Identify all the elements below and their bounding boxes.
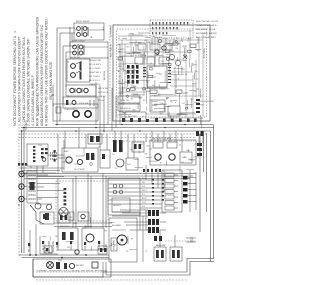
latch motor box: [150, 137, 196, 165]
control board inner dashed box: [117, 29, 207, 117]
relay bank labels: [118, 66, 122, 83]
left chassis dashed vertical: [18, 127, 20, 258]
lock motor circle: [116, 159, 124, 167]
svg-text:HTR: HTR: [184, 57, 189, 59]
ground lug second: [46, 204, 51, 209]
svg-text:C4: C4: [182, 103, 184, 105]
aux box: [126, 158, 138, 170]
dashed line above fans: [165, 240, 196, 242]
door switch box: [67, 57, 102, 86]
dark connector pins strip: [183, 176, 188, 204]
notes text block (rotated schematic notes): [13, 16, 53, 126]
svg-text:REL: REL: [69, 217, 73, 219]
svg-text:1. ALL COMPONENTS SHOWN IN OFF: 1. ALL COMPONENTS SHOWN IN OFF POSITION …: [18, 36, 22, 126]
bottom wire tag labels: [28, 242, 108, 252]
svg-text:Q4: Q4: [130, 56, 133, 58]
svg-text:HI-LIMIT: HI-LIMIT: [76, 265, 85, 267]
bus dashed companions: [19, 133, 207, 135]
svg-text:LATCH SW: LATCH SW: [98, 87, 108, 90]
board row of relays second: [135, 55, 169, 64]
svg-text:90C MIN 600V AWG SIZE: 90C MIN 600V AWG SIZE: [49, 61, 53, 100]
vertical drops to bottom box: [30, 224, 36, 255]
wire bundle from left to top clusters: [57, 27, 75, 125]
svg-text:P2: P2: [115, 168, 117, 170]
svg-text:REL: REL: [166, 97, 170, 99]
fuse links cluster: [27, 140, 64, 170]
svg-text:J3: J3: [176, 38, 178, 40]
svg-text:P1: P1: [191, 99, 193, 101]
svg-text:CAVITY: CAVITY: [118, 48, 125, 51]
bottom center box: [109, 218, 137, 262]
dashed chassis line left of board: [109, 25, 111, 121]
terminal strip block: [162, 170, 182, 212]
right nested border wires: [200, 125, 214, 262]
board small components: [118, 39, 196, 93]
latch switch box: [63, 85, 109, 108]
terminal hatch block: [27, 171, 37, 203]
bottom component cluster row: [40, 212, 104, 250]
svg-text:CONTROL DETAIL A: CONTROL DETAIL A: [196, 24, 217, 27]
svg-text:W: W: [137, 94, 139, 96]
svg-text:OSC: OSC: [170, 51, 175, 53]
svg-text:P2: P2: [197, 50, 199, 52]
board mesh wires: [118, 30, 203, 118]
cooling fan cluster: [154, 244, 182, 261]
svg-text:TOD: TOD: [38, 145, 43, 147]
svg-text:R SERVICING THIS UNIT USE COPP: R SERVICING THIS UNIT USE COPPER CONDUCT…: [45, 19, 49, 126]
svg-text:BK W GY 3: BK W GY 3: [89, 80, 100, 82]
element receptacle box: [108, 178, 140, 215]
terminal wires: [25, 174, 49, 199]
svg-text:LATCH MOTOR ASM: LATCH MOTOR ASM: [152, 137, 171, 140]
svg-text:FUSE: FUSE: [144, 88, 150, 90]
svg-text:BROIL 3400W: BROIL 3400W: [76, 21, 89, 23]
latch aux cluster: [132, 142, 144, 152]
terminal block connector marks: [18, 163, 27, 166]
svg-text:200: 200: [190, 237, 194, 243]
terminal block circles: [19, 171, 24, 201]
wire row labels: [142, 178, 147, 208]
svg-text:L1: L1: [145, 251, 147, 253]
svg-text:DOOR SW: DOOR SW: [70, 57, 80, 59]
svg-text:GND: GND: [83, 227, 88, 229]
junction dot: [52, 94, 54, 96]
svg-text:SENSOR IN: SENSOR IN: [120, 108, 131, 110]
broil element cluster: [74, 21, 104, 40]
transistor Q1: [169, 54, 174, 59]
bottom small comps: [47, 262, 98, 269]
svg-text:BAKE 2500W: BAKE 2500W: [72, 40, 85, 43]
scattered board labels: [118, 34, 194, 105]
svg-text:CAM: CAM: [182, 156, 187, 159]
left border corner: [32, 259, 34, 277]
wire: [52, 85, 54, 104]
strip right verticals: [190, 170, 196, 212]
left wire drops: [21, 131, 23, 253]
pin cluster wires: [120, 210, 166, 230]
svg-text:FAN LAMP: FAN LAMP: [156, 244, 167, 247]
bottom inner equipment box: [33, 259, 111, 277]
clock note text: [196, 21, 219, 58]
svg-text:NC GY: NC GY: [98, 100, 105, 102]
svg-text:DOOR SW 2: DOOR SW 2: [89, 64, 102, 66]
svg-text:P6 CONN: P6 CONN: [38, 106, 40, 116]
svg-text:T1: T1: [167, 89, 169, 91]
strip out wires: [188, 178, 196, 202]
nested corner verticals: [103, 262, 106, 275]
svg-text:L1: L1: [150, 63, 152, 65]
svg-text:COM NO BK: COM NO BK: [89, 60, 102, 62]
svg-text:P3: P3: [194, 64, 196, 66]
svg-text:NO COM NC: NO COM NC: [74, 169, 86, 171]
wire bundle descending to bus: [96, 44, 120, 131]
svg-text:P1: P1: [188, 39, 190, 41]
svg-text:N: N: [18, 203, 20, 207]
svg-text:BLOWER: BLOWER: [112, 225, 121, 227]
svg-text:NO COM R: NO COM R: [89, 76, 100, 78]
drop wires into rows from bus: [146, 165, 164, 192]
svg-text:NC COM W: NC COM W: [89, 68, 100, 70]
motor aux box: [68, 212, 74, 220]
svg-text:OR-4: OR-4: [142, 190, 147, 192]
svg-text:C1: C1: [126, 251, 128, 253]
mid cluster components: [54, 134, 111, 172]
svg-text:HARNESS: HARNESS: [52, 241, 55, 253]
clock connector cluster: [150, 20, 193, 38]
svg-text:4. CAUTION LABEL ALL WIRES P: 4. CAUTION LABEL ALL WIRES P: [31, 74, 35, 126]
svg-text:L1: L1: [56, 245, 58, 247]
svg-text:BK-1: BK-1: [142, 178, 146, 180]
harness pin marks: [64, 188, 67, 205]
svg-text:Y 20: Y 20: [84, 245, 87, 251]
bottom dashed row: [36, 271, 108, 273]
dark pin clusters bottom: [148, 210, 162, 241]
lower-left feeder wires: [20, 166, 64, 204]
svg-text:K1: K1: [143, 69, 145, 71]
svg-text:P4: P4: [190, 159, 192, 161]
svg-text:MAIN PWR: MAIN PWR: [48, 241, 51, 253]
svg-text:2. CHECK ALL CONNECTIONS FOR P: 2. CHECK ALL CONNECTIONS FOR PROPER ROUT…: [22, 36, 26, 126]
svg-text:W: W: [129, 80, 131, 82]
svg-text:P3 CONN: P3 CONN: [204, 48, 206, 58]
svg-text:D3: D3: [112, 154, 114, 156]
svg-text:SEE SHEET 2 FOR: SEE SHEET 2 FOR: [196, 29, 216, 31]
svg-text:W-2: W-2: [142, 182, 145, 184]
svg-text:W: W: [103, 249, 105, 251]
ground stepped wire: [30, 205, 44, 224]
dark pin column right: [196, 99, 200, 113]
svg-text:B1: B1: [91, 36, 93, 38]
svg-text:T1: T1: [49, 215, 51, 217]
svg-text:J2: J2: [179, 144, 181, 146]
svg-text:K1: K1: [131, 98, 133, 100]
svg-text:TOD: TOD: [58, 260, 63, 262]
control board outer box: [113, 25, 210, 121]
board micro parts: [126, 40, 191, 109]
svg-text:4.: 4.: [13, 30, 17, 33]
bottom tag ticks: [28, 241, 100, 246]
svg-text:BAKE RLY: BAKE RLY: [60, 225, 70, 228]
svg-text:GY-7: GY-7: [142, 202, 146, 204]
svg-text:MOTOR DR: MOTOR DR: [98, 92, 109, 94]
svg-text:J2: J2: [136, 83, 138, 85]
mid band drop wires: [58, 128, 203, 174]
svg-text:RC1: RC1: [122, 112, 126, 114]
left bottom wires: [19, 255, 109, 258]
svg-text:D3: D3: [155, 49, 157, 51]
svg-text:SCHEMATIC SHOWN WITH DOOR CLOS: SCHEMATIC SHOWN WITH DOOR CLOSED AND SWI…: [37, 270, 107, 273]
dark connector bars mid: [113, 131, 204, 156]
mid band fine texture: [122, 143, 201, 173]
svg-text:P3: P3: [185, 93, 187, 95]
wire row ticks: [152, 179, 164, 205]
center harness dashed box: [56, 181, 108, 221]
svg-text:R-3: R-3: [142, 186, 145, 188]
svg-text:P3: P3: [131, 239, 133, 241]
svg-text:COM: COM: [151, 36, 156, 38]
tick cluster above rows: [143, 169, 161, 172]
svg-text:TRIAC DR: TRIAC DR: [120, 99, 130, 102]
ground lug: [35, 203, 41, 209]
ground comp: [45, 213, 49, 220]
fan wires: [160, 230, 196, 247]
svg-text:BK WIRE: BK WIRE: [104, 70, 106, 80]
board row of relays top: [138, 43, 172, 51]
svg-text:K2: K2: [182, 162, 184, 164]
bottom top-row wires: [112, 210, 148, 262]
bottom left harness label block: [40, 236, 58, 254]
bottom dashed border: [36, 279, 188, 281]
wire rows to terminal strip: [108, 180, 162, 208]
board fine texture wires: [119, 35, 198, 121]
svg-text:P1: P1: [119, 152, 121, 154]
board extra texture wires: [119, 33, 214, 128]
svg-text:P1: P1: [195, 91, 197, 93]
svg-text:KEYBOARD MATRIX: KEYBOARD MATRIX: [196, 32, 217, 35]
power bus lines: [21, 125, 214, 132]
comps hanging at board bottom edge: [122, 118, 197, 122]
board lower components row: [118, 96, 180, 121]
board micro labels: [117, 36, 199, 116]
bottom border step lines: [33, 259, 214, 278]
center harness wires: [58, 174, 106, 229]
svg-text:DLB K5: DLB K5: [64, 157, 71, 159]
svg-text:ELECTRONIC CLOCK: ELECTRONIC CLOCK: [196, 21, 218, 23]
harness cross wires: [54, 223, 112, 227]
components hanging below clock cluster: [152, 38, 188, 54]
svg-text:BU-6: BU-6: [142, 198, 146, 200]
bake element cluster: [70, 40, 108, 59]
svg-text:COM NO: COM NO: [98, 96, 106, 98]
oven light box: [53, 104, 98, 121]
svg-text:RC1: RC1: [141, 144, 145, 146]
relay bank dark stack: [127, 65, 139, 84]
convection motor: [59, 207, 68, 216]
microcontroller square: [143, 66, 171, 87]
svg-text:R4: R4: [105, 230, 107, 232]
svg-text:V-8: V-8: [142, 206, 145, 208]
svg-text:LIGHT SW 1: LIGHT SW 1: [89, 72, 102, 74]
svg-text:OVEN LIGHTS: OVEN LIGHTS: [64, 109, 78, 111]
second bus band: [20, 174, 196, 179]
svg-text:C2: C2: [196, 79, 198, 81]
diode D1: [183, 55, 187, 59]
junction dots bottom: [29, 254, 87, 258]
svg-text:L1 POWER: L1 POWER: [111, 25, 113, 37]
svg-text:Y-5: Y-5: [142, 194, 145, 196]
board extra labels: [117, 35, 201, 118]
svg-text:AND DANGEROUS OPERATION VERIFY: AND DANGEROUS OPERATION VERIFY OPERATION…: [40, 24, 44, 126]
svg-text:RECEPT: RECEPT: [113, 205, 122, 207]
svg-text:3. DOOR SHOWN CLOSED ALL SWITC: 3. DOOR SHOWN CLOSED ALL SWITCHES SHOWN …: [27, 39, 31, 126]
mid dashed line right: [112, 140, 196, 142]
svg-text:J1: J1: [118, 38, 120, 40]
element labels right side: [104, 25, 113, 80]
bottom band fine texture: [45, 215, 148, 253]
svg-text:Q4: Q4: [185, 74, 187, 76]
bottom extra comps: [44, 246, 107, 254]
svg-text:FUSE: FUSE: [118, 93, 124, 95]
bus junction dots: [21, 124, 186, 132]
svg-text:NOTE DISCONNECT POWER BEFORE S: NOTE DISCONNECT POWER BEFORE SERVICING U…: [13, 35, 17, 126]
svg-text:RC1: RC1: [147, 146, 151, 148]
transistor Q2: [175, 60, 180, 65]
svg-text:XFMR: XFMR: [152, 105, 158, 107]
svg-text:SCHEM: SCHEM: [24, 121, 28, 130]
